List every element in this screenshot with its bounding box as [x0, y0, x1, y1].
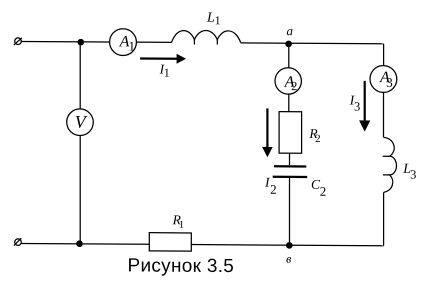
svg-text:1: 1 [179, 220, 184, 231]
svg-text:V: V [75, 112, 88, 132]
svg-text:2: 2 [270, 182, 276, 197]
svg-text:Рисунок 3.5: Рисунок 3.5 [128, 255, 235, 277]
svg-text:a: a [287, 23, 294, 38]
svg-text:2: 2 [291, 79, 297, 93]
svg-text:3: 3 [354, 100, 360, 114]
svg-text:3: 3 [386, 75, 392, 90]
svg-text:3: 3 [410, 168, 416, 182]
svg-text:1: 1 [164, 66, 170, 80]
svg-text:1: 1 [129, 38, 135, 53]
svg-text:1: 1 [215, 13, 221, 27]
svg-text:2: 2 [320, 184, 326, 199]
svg-text:2: 2 [315, 133, 320, 145]
svg-text:в: в [286, 252, 291, 266]
